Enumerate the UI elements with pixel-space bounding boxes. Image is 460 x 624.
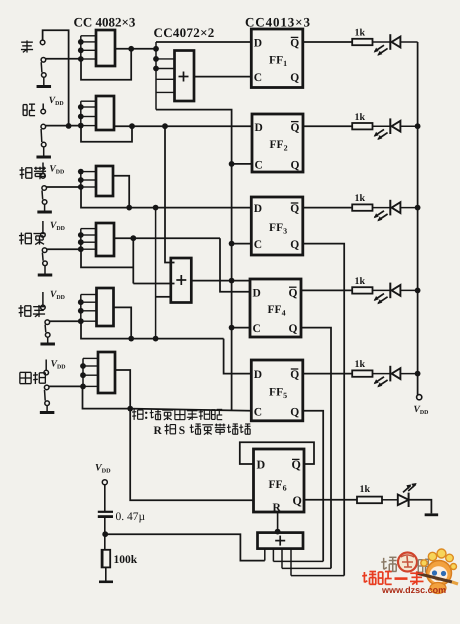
wire S1 pole to G1 input <box>46 58 81 60</box>
flip-flop FF1 (CC4013) body <box>251 29 302 88</box>
LED D6 <box>398 495 409 506</box>
AND gate G3 input line <box>80 172 82 187</box>
wire FF5 Qbar to resistor <box>303 373 352 375</box>
AND gate G1 (CC4082) body <box>96 30 115 66</box>
AND gate G6 input stub 4 <box>83 385 98 387</box>
note line 1: flip-flop unmarked <box>133 409 135 420</box>
wire OR1 input bus <box>155 42 157 110</box>
node G1 input junction <box>78 56 84 62</box>
switch S5 (stop): top contact <box>41 305 46 310</box>
svg-text:CC4013×3: CC4013×3 <box>245 15 311 30</box>
wire G4 drop <box>132 238 134 283</box>
node G1 input junction <box>78 47 84 53</box>
AND gate G5 input stub 1 <box>81 294 97 296</box>
VDD terminal right <box>417 395 422 400</box>
node OR1-G1 junction <box>153 46 159 52</box>
wire stub to FF3 C <box>232 243 252 245</box>
node G5-V1 junction <box>153 336 159 342</box>
watermark text weiku-yixia <box>363 572 365 582</box>
AND gate G2 input line <box>80 101 82 125</box>
AND gate G1 input stub 1 <box>81 35 96 37</box>
node FF4 C junction <box>229 325 235 331</box>
wire FF6 R to OR3 <box>277 512 279 533</box>
OR gate U2a plus sign <box>179 76 189 78</box>
AND gate G6 input line <box>82 358 84 386</box>
LED D3 emission arrows <box>375 211 385 217</box>
svg-text:C: C <box>254 406 262 418</box>
OR3 input stub 2 <box>272 549 274 562</box>
wire G4 output <box>114 237 220 239</box>
AND gate G2 input stub 4 <box>81 125 96 127</box>
switch S3 (rewind): wire to ground <box>44 204 46 210</box>
AND gate G1 input stub 3 <box>81 49 96 51</box>
wire LED 3 to VDD bus <box>400 207 417 209</box>
wire capacitor to junction <box>104 518 106 534</box>
wire LED D6 to ground <box>409 500 432 514</box>
wire FF6 Qbar to D feedback loop <box>240 442 314 464</box>
OR1 input stub 2 <box>156 68 175 70</box>
switch S1 (record): top contact <box>40 40 45 45</box>
ground of RC filter <box>99 580 113 583</box>
svg-text:1k: 1k <box>355 112 366 123</box>
ground of LED D6 <box>425 513 439 516</box>
flip-flop FF4 (CC4013) body <box>250 279 301 337</box>
node G3 input junction <box>78 177 84 183</box>
switch S5 (stop): lever <box>44 325 47 333</box>
wire G3 output to FF3 D <box>129 207 251 209</box>
ground of switch S6 (pause) <box>40 411 55 414</box>
svg-text:1k: 1k <box>360 484 371 495</box>
node G2 input junction <box>78 123 84 129</box>
svg-text:100k: 100k <box>114 554 138 566</box>
svg-text:Q: Q <box>290 72 299 84</box>
svg-text:D: D <box>255 122 263 134</box>
switch S2 (play): top contact <box>41 109 46 114</box>
AND gate G2 input stub 2 <box>81 106 96 108</box>
wire junction to resistor <box>104 534 106 550</box>
switch S3 (rewind): bottom contact <box>42 200 47 205</box>
wire resistor to LED 2 <box>373 125 391 127</box>
VDD stub for S5 <box>42 292 44 305</box>
node G3 input junction <box>78 169 84 175</box>
AND gate G4 input line <box>80 229 82 250</box>
LED D5 <box>389 366 391 382</box>
AND gate G5 input stub 4 <box>81 320 97 322</box>
wire OR3 input 2 hook <box>273 560 323 562</box>
wire G3 loop to inputs <box>81 187 129 208</box>
ground of switch S3 (rewind) <box>37 211 52 214</box>
switch S1 (record): wire to ground <box>43 77 45 85</box>
label 'play' <box>23 104 27 106</box>
LED D2 <box>389 118 391 134</box>
wire G6 output <box>115 370 130 409</box>
wire S4 pole to G4 input <box>47 248 81 250</box>
AND gate G6 input stub 2 <box>83 365 98 367</box>
node G2 output junction <box>129 123 135 129</box>
node G2 input junction <box>78 104 84 110</box>
svg-text:CC4072×2: CC4072×2 <box>154 25 215 40</box>
watermark mascot body <box>430 583 446 594</box>
svg-text:D: D <box>254 38 262 50</box>
resistor R2 1k body <box>352 123 372 129</box>
wire LED 4 to VDD bus <box>400 289 417 291</box>
LED D1 emission arrows <box>375 45 385 51</box>
AND gate G4 (CC4082) body <box>96 223 114 256</box>
wire G2 output to FF2 D <box>114 125 252 127</box>
wire S5 pole to G5 input <box>50 320 81 322</box>
wire resistor to LED 1 <box>373 41 391 43</box>
wire FF4 Qbar to resistor <box>301 289 352 291</box>
resistor R1 1k body <box>352 39 372 45</box>
svg-text:Q: Q <box>290 406 299 418</box>
switch S2 (play): pole contact <box>41 124 46 129</box>
node G5 input junction <box>78 308 84 314</box>
svg-text:Q: Q <box>290 369 299 381</box>
svg-text:1k: 1k <box>355 193 366 204</box>
svg-text:R: R <box>154 425 163 437</box>
switch S4 (fast-forward): pole contact <box>42 248 47 253</box>
watermark mascot head <box>427 561 452 586</box>
AND gate G6 input stub 3 <box>83 374 98 376</box>
resistor R4 1k body <box>352 287 372 293</box>
AND gate G5 input stub 2 <box>81 301 97 303</box>
resistor R3 1k body <box>352 204 372 210</box>
resistor R6 1k body <box>357 497 382 504</box>
label 'fast forward' <box>20 233 22 245</box>
switch S6 (pause): bottom contact <box>45 401 50 406</box>
OR gate U2a (CC4072) body <box>175 51 195 102</box>
AND gate G6 (CC4082) body <box>98 352 115 393</box>
switch S4 (fast-forward): top contact <box>41 233 46 238</box>
wire FF3 Q drop <box>303 244 344 576</box>
switch S6 (pause): pole contact <box>44 385 49 390</box>
node OR1 input junction 2 <box>153 66 159 72</box>
node G6 input junction <box>80 363 86 369</box>
wire G2 output drop to OR2 input <box>165 126 175 262</box>
svg-text:D: D <box>257 458 266 472</box>
OR3 input stub 1 <box>264 549 266 561</box>
node OR2 output junction <box>229 278 235 284</box>
VDD stub for S3 <box>42 163 44 174</box>
node bus-S2 junction <box>66 123 72 129</box>
OR1 input stub 1 <box>156 58 175 60</box>
switch S3 (rewind): top contact <box>41 174 46 179</box>
svg-text:0. 47µ: 0. 47µ <box>116 511 146 523</box>
LED D5 emission arrows <box>375 377 385 383</box>
ground of switch S1 (record) <box>37 85 52 88</box>
svg-text:Q: Q <box>291 160 300 172</box>
LED D4 <box>389 283 391 299</box>
node G6 input junction <box>80 372 86 378</box>
node G5 output junction <box>128 336 134 342</box>
node bus row4 <box>415 288 421 294</box>
AND gate G4 input stub 1 <box>81 228 96 230</box>
node G6 input junction <box>80 384 86 390</box>
svg-text:1k: 1k <box>355 276 366 287</box>
AND gate G2 (CC4082) body <box>96 96 114 130</box>
svg-text:Q: Q <box>290 239 299 251</box>
switch S3 (rewind): lever <box>41 190 44 199</box>
AND gate G4 input stub 3 <box>81 241 96 243</box>
wire LED 1 to VDD bus <box>400 41 417 43</box>
node bus row5 <box>415 371 421 377</box>
wire FF1 D line <box>156 41 251 43</box>
wire G4 drop to OR2 left input <box>133 283 174 285</box>
wire OR2 bottom stub from V1 <box>156 296 171 298</box>
flip-flop FF2 (CC4013) body <box>252 114 303 172</box>
AND gate G3 input stub 2 <box>81 179 96 181</box>
wire FF6 Q output <box>304 499 357 501</box>
svg-text:D: D <box>253 287 261 299</box>
OR3 input stub 4 <box>290 549 292 576</box>
label 'rewind' <box>21 167 23 179</box>
AND gate G6 input stub 1 <box>83 357 98 359</box>
AND gate G3 input stub 1 <box>81 171 96 173</box>
node FF3 C junction <box>229 241 235 247</box>
switch S6 (pause): top contact <box>44 370 49 375</box>
LED D4 emission arrows <box>375 294 385 300</box>
flip-flop FF6 (CC4013) body <box>254 449 305 512</box>
node G4 output junction <box>130 235 136 241</box>
wire FF1 Qbar to resistor <box>303 41 352 43</box>
switch S4 (fast-forward): bottom contact <box>43 261 48 266</box>
wire FF4 Q drop <box>301 328 331 569</box>
wire G6 drop to FF6 C <box>130 409 253 501</box>
OR gate U3 plus sign <box>275 540 285 542</box>
wire G3 output <box>113 176 129 208</box>
AND gate G3 (CC4082) body <box>96 166 113 196</box>
wire G2 feedback loop <box>81 126 132 142</box>
VDD stub for S6 <box>45 360 47 371</box>
AND gate G5 input stub 3 <box>81 310 97 312</box>
node bus row3 <box>415 205 421 211</box>
wire right VDD bus <box>417 42 419 395</box>
wire G5 output <box>114 307 132 338</box>
switch S2 (play): wire to ground <box>43 147 45 156</box>
switch S5 (stop): wire to ground <box>47 337 49 342</box>
node G2 output branch junction <box>162 123 168 129</box>
wire V1 (G3 out to G5 line) <box>155 208 157 339</box>
watermark mascot pen <box>416 573 452 582</box>
svg-text:C: C <box>254 239 262 251</box>
AND gate G2 input stub 1 <box>81 100 96 102</box>
node RC junction <box>102 531 108 537</box>
wire resistor to ground <box>105 567 107 580</box>
switch S1 (record): lever <box>40 62 43 72</box>
LED D3 <box>389 200 391 216</box>
wire G5 output run <box>131 338 223 340</box>
OR gate U2b plus sign <box>176 279 186 281</box>
node OR1 input junction 1 <box>153 56 159 62</box>
node G6 output junction <box>127 406 133 412</box>
VDD stub for S2 <box>42 104 44 110</box>
wire LED 5 to VDD bus <box>400 373 417 375</box>
svg-text:Q: Q <box>290 38 299 50</box>
svg-text:D: D <box>254 369 262 381</box>
AND gate G5 input line <box>80 295 82 322</box>
node G5 input junction <box>78 318 84 324</box>
wire G5 loop to inputs <box>81 321 131 338</box>
node G3 input junction <box>78 184 84 190</box>
wire FF5 Q drop <box>303 411 323 562</box>
wire resistor to LED 4 <box>373 289 391 291</box>
AND gate G1 input line <box>80 36 82 59</box>
node G4 input junction <box>78 246 84 252</box>
wire G4 output elbow to FF4 D <box>220 238 250 292</box>
watermark text zhao-tu-pian <box>383 558 385 569</box>
resistor R5 1k body <box>352 370 372 376</box>
OR gate U2b (CC4072) body <box>171 258 192 303</box>
svg-text:Q: Q <box>291 122 300 134</box>
node G5 input junction <box>78 299 84 305</box>
wire stub to FF2 C <box>232 163 252 165</box>
svg-text:C: C <box>254 72 262 84</box>
wire VDD to capacitor <box>104 485 106 511</box>
svg-text:C: C <box>255 160 263 172</box>
wire G4 loop to inputs <box>81 249 133 267</box>
AND gate G3 input stub 3 <box>81 186 96 188</box>
watermark mascot crown bulbs <box>428 552 436 560</box>
ground of switch S4 (fast-forward) <box>38 274 53 277</box>
switch S1 (record): pole contact <box>41 58 46 63</box>
AND gate G2 input stub 3 <box>81 116 96 118</box>
wire S1 top contact to left bus <box>43 30 69 126</box>
node G3-V1 junction <box>153 205 159 211</box>
resistor R7 100k body <box>102 550 111 568</box>
wire resistor R6 to LED D6 <box>382 499 398 501</box>
wire resistor to LED 3 <box>373 207 391 209</box>
OR1 input stub 4 <box>156 91 175 93</box>
svg-text:Q: Q <box>289 287 298 299</box>
OR1 input stub 3 <box>156 78 175 80</box>
AND gate G4 input stub 2 <box>81 234 96 236</box>
node bus row2 <box>415 123 421 129</box>
switch S5 (stop): bottom contact <box>45 333 50 338</box>
OR3 input stub 3 <box>281 549 283 569</box>
OR gate U3 (CC4072) body <box>258 533 304 549</box>
VDD stub for S4 <box>42 221 44 232</box>
AND gate G1 input stub 4 <box>81 58 96 60</box>
svg-text:D: D <box>254 203 262 215</box>
node G3 output junction <box>126 205 132 211</box>
svg-text:www.dzsc.com: www.dzsc.com <box>381 585 446 595</box>
wire G6 output to FF5 C <box>130 409 251 411</box>
wire S2 pole to bus and G2 input <box>46 125 81 127</box>
label 'pause' <box>20 371 31 373</box>
wire OR1 output to FF1 C <box>194 76 251 78</box>
wire OR2 output to clock bus <box>191 280 250 282</box>
wire G1 output <box>115 48 156 50</box>
node FF6 R junction <box>275 529 281 535</box>
label 'stop' <box>20 305 22 317</box>
svg-text:Q: Q <box>290 203 299 215</box>
node G4 input junction <box>78 239 84 245</box>
wire G6 loop to inputs <box>83 386 131 408</box>
wire clock bus from OR1 to FFs C inputs <box>156 110 232 411</box>
node G2 input junction <box>78 114 84 120</box>
svg-text:S: S <box>179 425 185 437</box>
node G1 input junction <box>78 39 84 45</box>
LED D2 emission arrows <box>375 129 385 135</box>
switch S3 (rewind): pole contact <box>42 186 47 191</box>
wire S6 pole to G6 input <box>49 385 83 387</box>
node G1 output junction <box>128 46 134 52</box>
switch S5 (stop): pole contact <box>45 320 50 325</box>
ground of switch S2 (play) <box>36 156 51 159</box>
switch S1 (record): bottom contact <box>42 73 47 78</box>
label 'record' <box>21 41 33 43</box>
LED D6 emission arrows <box>403 486 411 493</box>
AND gate G4 input stub 4 <box>81 248 96 250</box>
flip-flop FF5 (CC4013) body <box>251 360 302 421</box>
switch S2 (play): lever <box>40 129 43 142</box>
switch S4 (fast-forward): lever <box>41 253 44 261</box>
wire OR3 input 3 hook <box>282 567 331 569</box>
switch S4 (fast-forward): wire to ground <box>44 266 46 274</box>
watermark stamp circle <box>398 553 417 572</box>
wire stub to FF4 C <box>232 327 250 329</box>
switch S6 (pause): wire to ground <box>46 406 48 412</box>
svg-text:C: C <box>253 323 261 335</box>
wire LED 2 to VDD bus <box>400 125 417 127</box>
wire resistor to LED 5 <box>373 373 391 375</box>
switch S2 (play): bottom contact <box>41 142 46 147</box>
svg-text:Q: Q <box>293 493 302 507</box>
wire OR3 input 4 hook <box>291 575 344 577</box>
node G4 input junction <box>78 232 84 238</box>
VDD terminal bottom <box>102 480 107 485</box>
switch S6 (pause): lever <box>44 390 47 401</box>
wire FF2 Qbar to resistor <box>303 125 352 127</box>
wire S3 pole to G3 input <box>47 186 82 188</box>
svg-text:CC 4082×3: CC 4082×3 <box>74 15 136 30</box>
svg-text:1k: 1k <box>355 28 366 39</box>
wire G5 elbow to FF5 D <box>224 339 252 374</box>
wire G1 feedback loop <box>81 49 131 80</box>
capacitor C1 0.47u <box>98 511 113 513</box>
ground of switch S5 (stop) <box>40 343 55 346</box>
node FF2 C junction <box>229 161 235 167</box>
wire FF3 Qbar to resistor <box>303 207 352 209</box>
wire RC junction to OR3 input 1 <box>105 534 265 560</box>
svg-text:Q: Q <box>289 323 298 335</box>
AND gate G5 (CC4082) body <box>97 288 114 326</box>
flip-flop FF3 (CC4013) body <box>251 197 302 255</box>
AND gate G1 input stub 2 <box>81 41 96 43</box>
svg-text:1k: 1k <box>355 359 366 370</box>
LED D1 <box>389 34 391 50</box>
